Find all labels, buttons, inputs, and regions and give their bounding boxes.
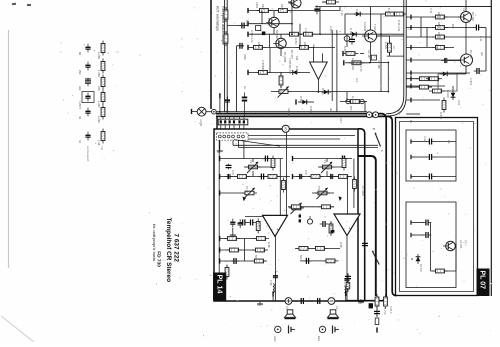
rail row 1 [406, 6, 491, 8]
label R823 [437, 12, 441, 19]
rung V15 [426, 28, 428, 48]
svg-text:P: P [372, 128, 376, 130]
phone plug symbol L [289, 326, 296, 334]
label 1 202 [97, 116, 101, 123]
svg-text:BC158: BC158 [267, 18, 271, 26]
vertical V12 [261, 11, 263, 24]
terminal row y34.2 [247, 32, 249, 37]
label R 26 [387, 8, 391, 14]
terminal row y47.4 [247, 45, 249, 50]
block top wire 2 [248, 138, 340, 140]
terminal tick f1 [410, 155, 412, 159]
label R 839 [384, 42, 388, 49]
capacitor C94 (left column) [85, 108, 90, 117]
wire c823 [481, 27, 486, 29]
tuner block inner border [400, 122, 474, 292]
label LS [285, 306, 289, 309]
label C 824 [469, 78, 473, 85]
capacitor C804 [339, 156, 348, 162]
DIN pin circle 6 [242, 135, 245, 138]
svg-text:R 843: R 843 [439, 112, 443, 119]
svg-text:T 805 BC 238: T 805 BC 238 [288, 58, 292, 75]
junction [313, 47, 315, 49]
thick supply bus 2 [216, 116, 396, 295]
capacitor C810 [238, 219, 243, 228]
phone plug symbol R [333, 326, 340, 334]
jack circle R out [328, 298, 335, 305]
resistor R810 [318, 205, 334, 209]
label 1N4148 [363, 22, 367, 32]
supply wire A [216, 111, 367, 113]
wire lamp to node [206, 111, 212, 113]
label 42 [78, 140, 82, 143]
filter wire 2b [434, 156, 456, 158]
label C 817 [423, 136, 426, 143]
rail row 8 [406, 85, 445, 87]
resistor R853 [252, 248, 268, 252]
transistor T807 [443, 241, 455, 251]
filter wire 2 [411, 156, 427, 158]
resistor R804 [234, 175, 250, 179]
diode D808 [440, 72, 450, 77]
rail row 9 [406, 99, 440, 101]
label 560 [349, 106, 353, 111]
label A 7 MHz [361, 186, 365, 197]
row wire 10 [387, 55, 404, 57]
t807 join [454, 245, 457, 247]
coil Dr3 (output R) [344, 287, 347, 296]
resistor R823 [250, 46, 266, 50]
DIN pin circle 3 [227, 135, 230, 138]
DIN pin circle 1 [218, 135, 221, 138]
filter wire 3 [411, 176, 427, 178]
wire bus tap [227, 25, 248, 27]
label R816 [303, 42, 307, 49]
label R818 [280, 4, 284, 11]
capacitor C819 [345, 273, 351, 282]
svg-text:D 814: D 814 [299, 96, 303, 103]
resistor R93 (left column) [101, 90, 105, 105]
row wire 8 [340, 101, 367, 103]
wire R3 [312, 192, 334, 194]
capacitor C824 [474, 68, 483, 74]
center line R [347, 177, 349, 215]
DIN pin circle 5 [237, 135, 240, 138]
terminal strip [376, 327, 378, 332]
svg-text:BA102: BA102 [446, 90, 450, 98]
transistor T802 [273, 38, 286, 48]
label C 89 [269, 280, 273, 286]
resistor R92 (left column) [101, 75, 105, 90]
label C 55 [359, 66, 363, 72]
label 2,2k [245, 20, 249, 26]
resistor R850 [426, 77, 442, 81]
capacitor C815 (output R) [344, 275, 349, 284]
label jusqu'à [152, 237, 156, 251]
IC3 in1 [313, 47, 315, 62]
junction [219, 111, 221, 113]
label R 811 [294, 38, 298, 45]
svg-text:C 55: C 55 [359, 66, 363, 72]
resistor R820 (strip) [384, 294, 388, 309]
wire T801 emitter [273, 28, 275, 35]
scan edge line left [8, 30, 10, 268]
terminal b1 [219, 236, 221, 241]
label 7 637 222 [173, 234, 180, 263]
capacitor C831 [426, 154, 435, 160]
rail row 87 [406, 86, 432, 88]
svg-text:BC 238: BC 238 [469, 50, 473, 59]
wire r831 [345, 62, 352, 64]
potentiometer P803 (volume R) [320, 162, 335, 173]
wire L1 [220, 158, 283, 160]
wire pot3 down [326, 171, 328, 177]
label AF amp [287, 108, 291, 118]
junction circle b [360, 99, 364, 103]
svg-text:1 206: 1 206 [97, 70, 101, 77]
label rechts [273, 336, 277, 344]
terminal tick f2 [410, 174, 412, 178]
label R 830 [351, 96, 355, 103]
label C2 [323, 160, 327, 164]
DIN pin circle 4 [232, 135, 235, 138]
capacitor C806 [327, 174, 336, 179]
label T 12 [462, 6, 466, 12]
label BC 158 [471, 12, 475, 21]
svg-text:C: C [374, 56, 378, 58]
wire c827 to T806 [449, 60, 461, 62]
svg-text:c 2574: c 2574 [78, 101, 82, 110]
svg-text:226: 226 [97, 86, 101, 91]
svg-text:N 5: N 5 [355, 78, 359, 83]
label C 89 [343, 282, 347, 288]
svg-text:C 85: C 85 [257, 222, 261, 228]
label D 811 [321, 88, 325, 95]
wire c824 [481, 70, 486, 72]
terminal b3 [219, 258, 221, 263]
svg-text:680: 680 [451, 24, 455, 29]
svg-text:hasta: hasta [152, 252, 156, 262]
label D 810 [355, 9, 359, 16]
resistor R816 [224, 237, 240, 241]
capacitor extra plate [85, 78, 91, 80]
label C2 [249, 160, 253, 164]
svg-text:R 836 120: R 836 120 [351, 58, 355, 71]
label 86 [78, 52, 82, 55]
row wire 1 [248, 10, 340, 12]
svg-text:LS: LS [285, 306, 289, 309]
resistor R835 [432, 26, 448, 30]
svg-text:PL 07: PL 07 [478, 271, 485, 290]
wire row D [220, 260, 266, 262]
wire gnd c809 [232, 228, 234, 232]
terminal b2 [219, 247, 221, 252]
stub wire [237, 45, 245, 47]
DIN connector dashed box [217, 133, 248, 140]
junction circle a [346, 99, 350, 103]
terminal K1 [191, 109, 193, 114]
capacitor C802 [224, 174, 233, 179]
row wire 2 [248, 23, 292, 25]
block inner rail [218, 140, 220, 297]
jack circle J3 [373, 112, 379, 118]
svg-text:AF 266: AF 266 [459, 240, 463, 249]
label 330k [243, 54, 247, 60]
filter wire 1b [434, 141, 456, 143]
terminal tick y60 [410, 58, 412, 63]
svg-text:R821: R821 [261, 66, 265, 73]
svg-text:1 202: 1 202 [97, 116, 101, 123]
wire r841 up [388, 36, 390, 43]
junction [291, 23, 293, 25]
svg-text:1 204: 1 204 [97, 101, 101, 108]
wire out R [345, 294, 347, 302]
terminal t102 [295, 99, 297, 104]
wire T806 emitter [465, 66, 467, 74]
node J1 [212, 109, 217, 114]
label 22k [295, 56, 299, 61]
svg-text:C 89: C 89 [269, 280, 273, 286]
label C 21 [479, 36, 483, 42]
svg-text:2,2k: 2,2k [245, 20, 249, 26]
svg-text:C 815: C 815 [329, 26, 333, 33]
diagonal signal wire [234, 140, 280, 147]
resistor R813 [296, 247, 312, 251]
capacitor C91 (left column) [85, 62, 90, 71]
svg-text:4µ7: 4µ7 [480, 52, 484, 57]
IC3 in2 [322, 54, 324, 63]
label BA102 [446, 90, 450, 98]
label TR 7 [464, 240, 468, 246]
resistor R836 [432, 35, 448, 39]
jack circle L out [285, 298, 292, 305]
diode D801 [290, 70, 300, 75]
transistor T801 [266, 17, 279, 27]
vertical V8 [380, 14, 382, 92]
svg-text:BC 238B: BC 238B [283, 52, 287, 63]
resistor R830 [343, 52, 359, 56]
svg-text:jusqu'à: jusqu'à [152, 237, 156, 251]
wire r842 [322, 1, 327, 3]
connector ST801 body [218, 119, 248, 125]
svg-text:42: 42 [78, 140, 82, 143]
connector pin 4 [233, 117, 235, 130]
label C R12 [304, 28, 308, 36]
svg-text:R825: R825 [437, 32, 441, 39]
svg-text:C2: C2 [323, 160, 327, 164]
terminal tick y17 [410, 15, 412, 20]
svg-text:C 807: C 807 [261, 60, 265, 67]
label R817 [261, 4, 265, 11]
label Tempelhof CR Stereo [165, 218, 172, 283]
row wire 6 [271, 91, 388, 93]
resistor R803 [271, 156, 275, 171]
label AF 266 [459, 240, 463, 249]
resistor R852 [226, 248, 242, 252]
capacitor C808 [247, 219, 256, 225]
svg-text:AF 279: AF 279 [383, 306, 387, 315]
resistor R840 [432, 269, 448, 273]
wire pin5 down [237, 140, 239, 147]
label 12V [397, 110, 401, 115]
loop wire top [369, 61, 388, 63]
label AF 7 [339, 118, 343, 124]
row wire 5 [248, 71, 310, 73]
vertical V4 [339, 7, 341, 11]
loudspeaker LS2 [328, 310, 339, 319]
row wire 11 [352, 62, 371, 64]
wire r848 up [226, 265, 228, 268]
capacitor C814 (output L) [273, 272, 278, 281]
label AUT. automatique [216, 6, 220, 32]
potentiometer P805 (balance) [289, 203, 304, 214]
wire T805-T806 [465, 23, 467, 55]
wire pin6 down [243, 140, 245, 159]
wire R pot [318, 166, 346, 168]
row wire 3 (long) [248, 33, 404, 35]
svg-text:B+: B+ [409, 120, 413, 124]
fuse Si1 [375, 318, 379, 325]
terminal out R [345, 291, 347, 296]
phone jack symbol L [275, 326, 281, 332]
label C 21 [429, 8, 433, 14]
wire T802 emitter [280, 49, 282, 56]
label 1 208 [97, 52, 101, 59]
phone jack symbol R [319, 326, 325, 332]
svg-text:R 26 1,2k: R 26 1,2k [397, 20, 401, 32]
rail row 6 [406, 59, 460, 61]
terminal tick y73 [410, 71, 412, 76]
ground G3 [257, 301, 263, 306]
vertical V17 [268, 34, 270, 47]
svg-text:AUT. automatique: AUT. automatique [216, 6, 220, 32]
label 1 30 [97, 140, 101, 146]
capacitor C829 [226, 164, 232, 170]
label C 807 [261, 60, 265, 67]
block border extension [358, 129, 365, 301]
rail line 2 [388, 0, 406, 116]
diode D806 [451, 90, 456, 100]
terminal out L [272, 291, 274, 296]
label 4,7k [231, 170, 235, 176]
terminal tick y86 [410, 84, 412, 89]
svg-text:330k: 330k [243, 54, 247, 60]
connector bracket [299, 215, 301, 223]
wire L2 [220, 176, 290, 178]
wiper arrow R [339, 196, 342, 201]
resistor R834 [432, 15, 448, 19]
resistor R855 [300, 32, 316, 36]
svg-text:TR 7: TR 7 [464, 240, 468, 246]
diode D804 [353, 12, 363, 17]
resistor R817 [253, 237, 269, 241]
label 46 [78, 116, 82, 119]
potentiometer P806 (trimmer) [276, 86, 291, 97]
wire to lamp [192, 111, 198, 113]
label AC 187 [367, 50, 371, 59]
capacitor C821 [314, 5, 319, 14]
resistor R841 [388, 40, 392, 55]
strip wire 1 [364, 240, 366, 273]
terminal in L [219, 156, 221, 161]
scan corner diagonal [1, 316, 34, 342]
terminal tick y78 [410, 76, 412, 81]
svg-text:252: 252 [78, 70, 82, 75]
junction [318, 91, 320, 93]
svg-text:BA 102: BA 102 [419, 264, 422, 272]
connector pin 6 [243, 117, 245, 130]
label BC158 [267, 18, 271, 26]
diode D803 [300, 100, 310, 105]
resistor R811 [256, 219, 260, 234]
svg-text:P L12: P L12 [245, 186, 249, 193]
resistor R845 [353, 177, 357, 192]
svg-text:T 810: T 810 [373, 24, 377, 31]
terminal row y23.7 [247, 21, 249, 26]
svg-text:1N4148: 1N4148 [363, 22, 367, 32]
wire d808 [450, 73, 466, 75]
vertical V9 [485, 28, 487, 72]
label AF 279 [383, 306, 387, 315]
junction [347, 176, 349, 178]
vertical V5 [346, 92, 348, 102]
resistor R91 (left column) [101, 59, 105, 74]
svg-text:R 88: R 88 [339, 242, 343, 248]
output wire L [275, 237, 277, 302]
terminal in L2 [219, 174, 221, 179]
diode D807 [416, 254, 421, 264]
wire r830 [360, 53, 364, 55]
resistor R848 [225, 265, 229, 280]
label bis [152, 224, 156, 229]
schematic right border [490, 0, 492, 296]
resistor R809 [288, 205, 304, 209]
resistor R839 [429, 89, 445, 93]
label B+ [409, 120, 413, 124]
label C 85 [329, 222, 333, 228]
label 0,22 [457, 100, 461, 106]
label C801 [255, 2, 259, 9]
label 1 204 [97, 101, 101, 108]
bus line AU1 [224, 0, 226, 112]
resistor R842 [323, 0, 339, 4]
DIN pin circle 2 [223, 135, 226, 138]
label C 815 [329, 26, 333, 33]
svg-text:C 21: C 21 [429, 8, 433, 14]
row wire 7 [298, 101, 314, 103]
signal wire P2 [238, 147, 378, 149]
registration mark 1 [12, 3, 16, 6]
label BC 238 [469, 50, 473, 59]
op-amp IC2 (right channel) [334, 214, 360, 236]
capacitor C800 (black) [242, 93, 247, 117]
svg-text:BC 158: BC 158 [471, 12, 475, 21]
capacitor C805 [296, 174, 305, 179]
junction [227, 111, 229, 113]
wire T802 collector [280, 34, 282, 38]
resistor R854 [286, 32, 302, 36]
potentiometer P802 (bass L) [242, 188, 257, 199]
rail line 1 [386, 0, 404, 114]
svg-text:albl: albl [329, 108, 333, 112]
resistor R851 [416, 85, 432, 89]
node 3 circle [282, 125, 289, 132]
svg-text:R 830: R 830 [351, 96, 355, 103]
row wire 9 [345, 13, 406, 15]
vertical V10 [331, 30, 333, 101]
capacitor C816 [298, 298, 307, 304]
label AC 188 [377, 60, 381, 69]
